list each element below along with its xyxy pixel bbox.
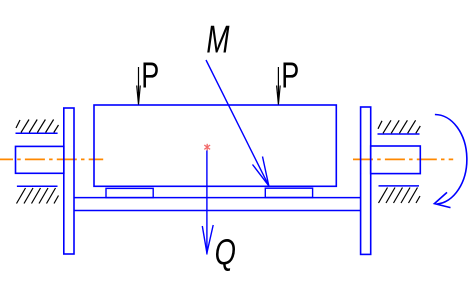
- centerline left segment: [0, 158, 103, 160]
- left flange: [64, 108, 74, 254]
- left shaft journal: [16, 146, 64, 173]
- center point marker: [204, 144, 210, 151]
- force P2 arrow shaft: [277, 67, 279, 96]
- right shaft journal: [371, 146, 421, 174]
- top-left support hatching: [16, 120, 59, 133]
- bottom-left support surface line: [17, 185, 58, 187]
- lower base rail: [74, 210, 361, 212]
- force P1 arrow shaft: [138, 67, 140, 96]
- force Q arrowhead: [202, 225, 213, 253]
- force P2 arrowhead: [277, 86, 281, 105]
- top-left support surface line: [16, 132, 58, 134]
- svg-text:P: P: [281, 55, 299, 96]
- upper base rail: [74, 197, 361, 199]
- bottom-right support surface line: [379, 185, 420, 187]
- svg-text:M: M: [206, 18, 230, 62]
- force Q arrow shaft: [206, 151, 208, 255]
- left foot pad: [106, 188, 153, 197]
- top-right support surface line: [378, 133, 420, 135]
- bottom-right support hatching: [379, 188, 421, 204]
- main body: [94, 105, 336, 186]
- svg-text:P: P: [141, 55, 159, 96]
- right foot pad: [265, 188, 312, 197]
- torque arrowhead: [434, 192, 450, 207]
- centerline right segment: [353, 158, 453, 160]
- svg-text:Q: Q: [215, 232, 236, 273]
- right flange: [361, 107, 371, 254]
- torque arc arrow: [435, 115, 467, 205]
- bottom-left support hatching: [17, 188, 59, 204]
- top-right support hatching: [378, 120, 420, 133]
- force P1 arrowhead: [137, 86, 141, 105]
- moment M arrowhead: [253, 157, 269, 186]
- moment M leader line: [206, 60, 269, 186]
